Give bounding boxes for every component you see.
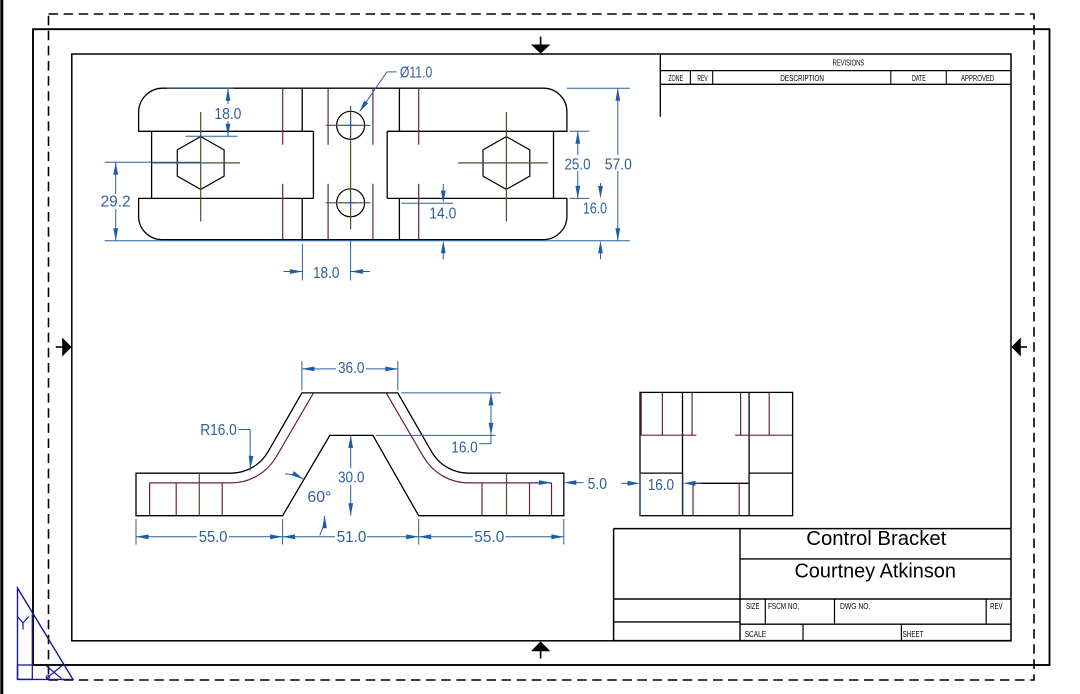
- svg-text:SCALE: SCALE: [745, 630, 766, 639]
- side view horizontal y483: [692, 482, 749, 484]
- svg-text:16.0: 16.0: [451, 439, 478, 456]
- dim 57.0 extension line top: [567, 87, 630, 89]
- svg-text:REV: REV: [697, 74, 708, 83]
- svg-text:14.0: 14.0: [429, 206, 456, 223]
- corner logo triangle: [18, 588, 74, 679]
- top centering arrow: [540, 37, 542, 46]
- dim 57.0: [617, 88, 619, 155]
- dim 60 degrees arc: [285, 474, 304, 480]
- dim 16.0 side: [621, 482, 629, 484]
- dim bottom blue baseline: [105, 240, 630, 242]
- plan right boss rectangle: [387, 130, 553, 132]
- side hidden verticals bottom (maroon): [692, 483, 694, 515]
- dim 29.2: [115, 162, 117, 194]
- front hidden verticals left (maroon): [149, 483, 151, 516]
- title block small cells verticals: [764, 599, 766, 624]
- right centering arrow: [1020, 346, 1027, 348]
- dim 30.0: [350, 435, 352, 468]
- side hidden horizontals (maroon): [640, 434, 696, 436]
- svg-text:18.0: 18.0: [214, 106, 241, 123]
- side view horizontal y473: [640, 472, 683, 474]
- svg-text:R16.0: R16.0: [200, 422, 237, 439]
- dim 18.0 top extension lines: [167, 87, 234, 89]
- side view long verticals: [682, 392, 684, 515]
- corner logo Y mark: [18, 617, 29, 630]
- svg-text:SIZE: SIZE: [746, 602, 760, 611]
- dim 25.0 extension lines: [570, 130, 590, 132]
- dim 55/51/55 extension lines: [135, 519, 137, 545]
- plan right hex centerlines (green): [505, 112, 507, 222]
- revisions table column dividers: [689, 71, 691, 85]
- dim 16.0 front extension lines: [401, 392, 501, 394]
- revisions table frame: [659, 54, 661, 117]
- svg-text:55.0: 55.0: [199, 529, 228, 546]
- svg-text:REV: REV: [990, 602, 1003, 611]
- front view outline: [136, 393, 564, 516]
- plan left hexagon: [177, 137, 224, 190]
- svg-text:ZONE: ZONE: [668, 74, 683, 83]
- dim 25.0: [577, 131, 579, 155]
- svg-text:25.0: 25.0: [565, 156, 591, 173]
- dim 51.0: [283, 536, 335, 538]
- plan view outline: [139, 88, 567, 239]
- dim 16.0 side extension lines: [639, 473, 641, 516]
- front hex centerlines (green): [198, 473, 200, 516]
- dim 55.0 right: [419, 536, 473, 538]
- svg-text:57.0: 57.0: [605, 156, 632, 173]
- dim 16.0 plan: [600, 183, 602, 191]
- dim 5.0: [532, 482, 541, 484]
- svg-text:DESCRIPTION: DESCRIPTION: [780, 74, 824, 83]
- svg-text:51.0: 51.0: [337, 529, 367, 546]
- plan left hex centerlines (green): [200, 112, 202, 222]
- plan hole centerlines (green): [350, 106, 352, 230]
- dim 18.0 top: [227, 88, 229, 104]
- dim 29.2 extension line: [105, 161, 201, 163]
- svg-text:36.0: 36.0: [338, 360, 365, 377]
- svg-text:55.0: 55.0: [474, 529, 504, 546]
- svg-text:Ø11.0: Ø11.0: [400, 65, 432, 82]
- svg-text:REVISIONS: REVISIONS: [833, 59, 865, 68]
- side hidden verticals top (maroon): [640, 393, 642, 435]
- corner logo X mark: [47, 666, 62, 679]
- plan top hole circle: [337, 111, 365, 139]
- svg-text:18.0: 18.0: [313, 265, 340, 282]
- svg-text:29.2: 29.2: [101, 193, 131, 210]
- plan bottom hole circle: [337, 189, 365, 217]
- svg-text:16.0: 16.0: [583, 200, 607, 217]
- plan hole center crosses (blue): [345, 124, 356, 126]
- plan slope edge verticals: [301, 88, 303, 131]
- left screen edge line: [0, 0, 3, 694]
- corner logo square: [18, 665, 33, 679]
- svg-text:5.0: 5.0: [588, 476, 607, 493]
- dim 16.0 front: [490, 393, 492, 444]
- svg-text:16.0: 16.0: [648, 477, 674, 494]
- dim 36.0: [302, 368, 336, 370]
- front hidden verticals right (maroon): [481, 483, 483, 516]
- inner drawing border: [72, 54, 1011, 641]
- bottom centering arrow: [540, 651, 542, 659]
- dim 36.0 extension lines: [301, 361, 303, 390]
- svg-text:60°: 60°: [307, 489, 331, 506]
- dim 55.0 left: [136, 536, 197, 538]
- svg-text:30.0: 30.0: [338, 470, 365, 487]
- svg-text:Control Bracket: Control Bracket: [806, 528, 946, 550]
- left centering arrow: [56, 346, 63, 348]
- svg-text:APPROVED: APPROVED: [961, 74, 994, 83]
- title block frame: [614, 529, 1011, 641]
- front fillet hidden curve right (maroon): [387, 393, 552, 483]
- svg-text:FSCM NO.: FSCM NO.: [768, 602, 799, 611]
- svg-text:SHEET: SHEET: [903, 630, 924, 639]
- dim 18.0 bottom extension lines: [301, 244, 303, 281]
- corner logo inner vertical: [31, 614, 33, 665]
- side view outline: [640, 392, 793, 515]
- leader dia 11.0: [387, 71, 397, 73]
- front fillet hidden curve left (maroon): [150, 393, 314, 483]
- plan left boss rectangle: [152, 130, 314, 132]
- svg-text:Courtney Atkinson: Courtney Atkinson: [794, 560, 956, 582]
- dim 18.0 bottom: [283, 271, 302, 273]
- plan right hexagon: [483, 137, 530, 190]
- svg-text:DATE: DATE: [912, 74, 926, 83]
- plan hidden fillet lines (maroon): [282, 89, 284, 145]
- svg-text:DWG NO.: DWG NO.: [840, 602, 870, 611]
- dim 14.0: [401, 202, 453, 204]
